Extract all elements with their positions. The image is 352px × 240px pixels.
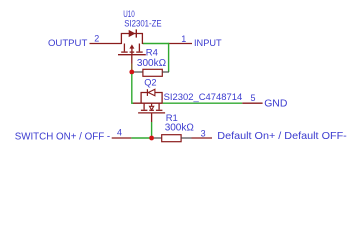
transistor U10 drain post: [138, 44, 140, 52]
svg-text:300kΩ: 300kΩ: [165, 122, 195, 133]
wire overlap gate lead to junction (blended): [131, 64, 133, 71]
pin 1 wire: [169, 43, 192, 45]
transistor Q2 gate lead: [151, 113, 153, 122]
resistor R1 right pin: [181, 137, 191, 139]
wire corner to Q2 drain: [132, 102, 134, 104]
svg-text:4: 4: [117, 128, 122, 138]
svg-text:300kΩ: 300kΩ: [137, 58, 167, 69]
resistor R1 body: [162, 135, 181, 142]
transistor U10 substrate arrow (filled, up): [129, 44, 134, 48]
transistor Q2 body loop: [141, 93, 162, 104]
transistor Q2 gate bar: [138, 112, 165, 114]
svg-text:GND: GND: [264, 97, 288, 109]
transistor Q2 body diode (open, pointing left): [146, 89, 148, 96]
svg-text:SI2301-ZE: SI2301-ZE: [124, 19, 161, 30]
transistor Q2 channel bars: [141, 109, 148, 111]
junction dot Q2 gate / R1: [149, 136, 154, 141]
transistor Q2 substrate arrow (open, down): [151, 103, 153, 106]
svg-text:1: 1: [181, 34, 186, 44]
wire pin4 to junction: [131, 137, 149, 139]
transistor U10 source post: [123, 44, 125, 52]
svg-text:SWITCH ON+ / OFF -: SWITCH ON+ / OFF -: [15, 131, 111, 142]
svg-text:5: 5: [251, 93, 256, 103]
svg-text:U10: U10: [123, 9, 135, 19]
transistor Q2 source post: [158, 103, 160, 109]
resistor R1 left pin: [154, 137, 162, 139]
transistor U10 body diode (filled, pointing right): [129, 30, 136, 37]
resistor R4 right pin: [162, 71, 169, 73]
wire down right of R4: [168, 43, 170, 72]
wire junction down to Q2: [131, 74, 133, 104]
transistor Q2 drain post: [143, 103, 145, 109]
pin 5 wire: [242, 102, 262, 104]
svg-text:OUTPUT: OUTPUT: [48, 38, 87, 49]
svg-text:SI2302_C4748714: SI2302_C4748714: [164, 92, 243, 103]
transistor U10 gate lead: [131, 55, 133, 64]
wire drain to INPUT corner: [143, 43, 169, 45]
transistor U10 body loop: [121, 34, 142, 45]
resistor R4 body: [143, 69, 162, 76]
svg-text:2: 2: [94, 33, 99, 43]
transistor U10 gate bar: [118, 54, 146, 56]
svg-text:Q2: Q2: [144, 78, 156, 89]
pin 4 wire: [112, 137, 132, 139]
wire Q2 gate to junction: [151, 122, 153, 136]
svg-text:3: 3: [201, 129, 206, 139]
resistor R4 left pin: [134, 71, 143, 73]
wire Q2 source to GND pin: [163, 102, 243, 104]
pin 2 wire: [90, 43, 122, 45]
svg-text:Default On+ / Default OFF-: Default On+ / Default OFF-: [217, 130, 347, 142]
svg-text:INPUT: INPUT: [194, 38, 222, 49]
transistor U10 drain stub: [142, 43, 143, 45]
transistor Q2 main bar: [133, 102, 163, 104]
junction dot U10 gate / R4: [129, 70, 134, 75]
pin 3 wire: [192, 137, 213, 139]
transistor U10 channel bars: [121, 51, 128, 53]
